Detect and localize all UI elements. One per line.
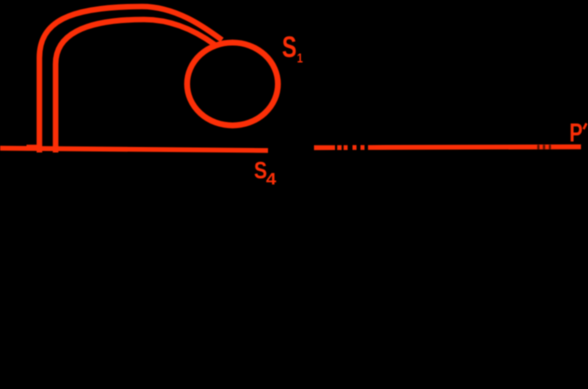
svg-text:4: 4 (266, 169, 276, 188)
svg-text:1: 1 (297, 50, 303, 65)
svg-text:P: P (569, 118, 582, 147)
svg-text:S: S (282, 30, 297, 64)
